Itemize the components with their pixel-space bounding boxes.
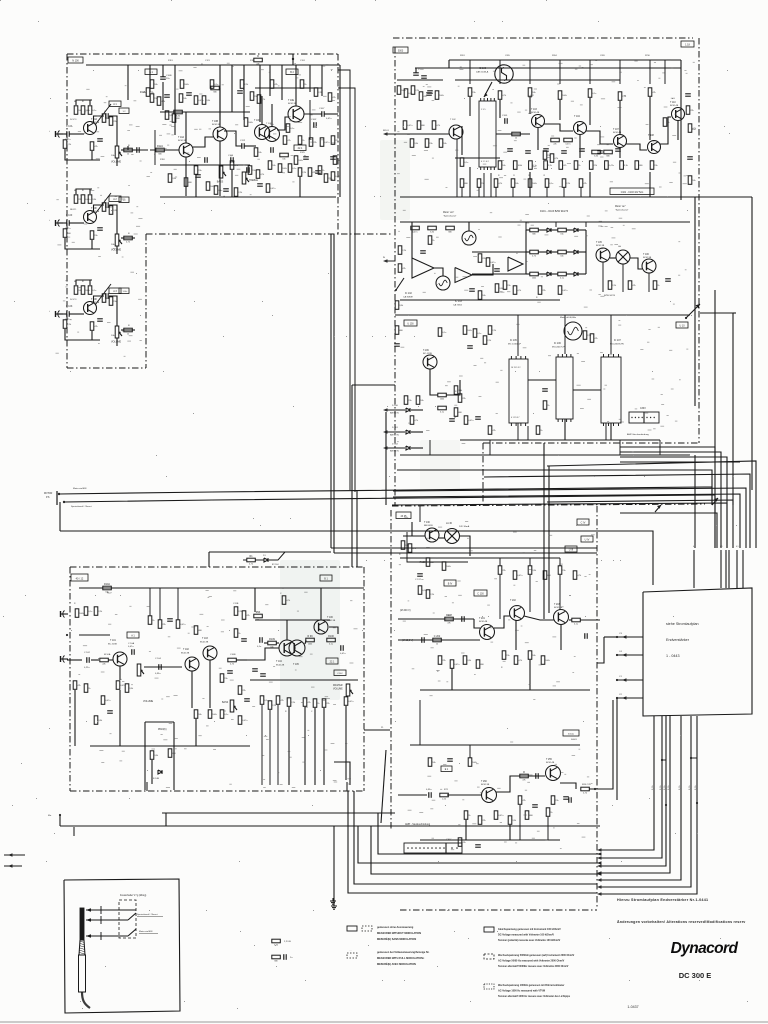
svg-text:T 10A: T 10A xyxy=(178,136,185,139)
staircase wire A xyxy=(547,461,756,548)
osc mid vert1 xyxy=(461,126,463,155)
svg-text:22k: 22k xyxy=(442,660,445,662)
cb out vert xyxy=(419,700,421,745)
endstufe fan wire 4 xyxy=(601,716,670,873)
preamp block boundary right edge xyxy=(337,54,339,234)
svg-text:C 10A: C 10A xyxy=(66,125,73,128)
bus arrowhead l2 xyxy=(597,861,602,864)
amp res under T101 xyxy=(116,681,120,690)
svg-text:C10C: C10C xyxy=(337,673,343,675)
out caps left xyxy=(428,792,430,798)
svg-text:♪: ♪ xyxy=(49,219,50,222)
tl mini caps xyxy=(204,157,206,163)
oscillator IC100 xyxy=(495,65,513,83)
svg-text:4,7k: 4,7k xyxy=(554,158,558,160)
tl right column parts xyxy=(331,136,335,145)
svg-text:10k: 10k xyxy=(482,295,485,297)
svg-text:MC 14160CP: MC 14160CP xyxy=(508,344,522,346)
svg-text:3,3k: 3,3k xyxy=(430,232,434,234)
page bottom scan line xyxy=(0,1021,768,1023)
right col comps xyxy=(688,124,692,133)
ic row rail xyxy=(460,439,660,441)
channel extra parts C xyxy=(102,294,106,303)
preamp block boundary mid edge xyxy=(146,233,393,235)
svg-text:1k: 1k xyxy=(152,620,154,622)
resistor R119 xyxy=(230,161,234,170)
svg-text:3,3k: 3,3k xyxy=(154,755,158,757)
svg-text:100k: 100k xyxy=(439,95,443,97)
svg-text:C11B: C11B xyxy=(233,603,239,605)
opamp IC102 xyxy=(412,258,434,278)
resistor ladder 10F r2 xyxy=(81,195,85,204)
svg-text:0,47u: 0,47u xyxy=(498,815,503,817)
svg-text:0,1%: 0,1% xyxy=(668,785,670,790)
nested corner c xyxy=(620,457,727,548)
legend row2 symbol xyxy=(347,953,357,958)
endstufe fan wire 6 xyxy=(601,716,691,887)
svg-text:“Speisekanal”: “Speisekanal” xyxy=(443,216,457,218)
endstufe bottom wire x670 xyxy=(669,715,671,717)
svg-text:IC 100: IC 100 xyxy=(479,67,487,70)
boxed label B1b xyxy=(320,575,332,581)
ps wires2 xyxy=(439,537,445,539)
amp pair wire xyxy=(264,642,268,644)
svg-text:10k: 10k xyxy=(692,180,695,182)
svg-text:10k: 10k xyxy=(183,98,186,100)
svg-text:22k: 22k xyxy=(542,290,545,292)
link horiz y553 xyxy=(334,552,597,554)
svg-text:0,1%: 0,1% xyxy=(679,785,681,790)
staircase wire B xyxy=(397,470,712,505)
svg-text:DAS 110B-A: DAS 110B-A xyxy=(476,71,489,74)
amp input jack1 xyxy=(63,611,65,618)
svg-text:47k: 47k xyxy=(522,780,525,782)
svg-text:100k: 100k xyxy=(298,160,302,162)
amp cap C104 xyxy=(158,664,160,670)
amp r res bottom xyxy=(287,698,291,707)
svg-text:T 10A: T 10A xyxy=(91,118,98,121)
svg-text:0,47u: 0,47u xyxy=(348,701,353,703)
ic row wires3 xyxy=(610,423,612,440)
input rc row r1 xyxy=(403,121,407,130)
svg-text:Motor ein/EIN: Motor ein/EIN xyxy=(73,487,87,490)
transistor T10A xyxy=(179,143,193,157)
driver wire2 xyxy=(494,616,510,628)
amp in wire xyxy=(67,659,82,661)
svg-text:47k: 47k xyxy=(402,268,405,270)
svg-text:C10Y: C10Y xyxy=(319,108,325,110)
svg-text:16 13 9 5 2: 16 13 9 5 2 xyxy=(511,367,520,369)
svg-text:MEASURED WITHOUT MODULATION: MEASURED WITHOUT MODULATION xyxy=(377,932,421,935)
coupling cap out 10K xyxy=(105,293,107,299)
boxed label BIV xyxy=(444,580,456,586)
svg-text:0,47u: 0,47u xyxy=(468,420,473,422)
resistor ladder 10K r2 xyxy=(81,286,85,295)
rotor wire 1 xyxy=(59,487,712,505)
svg-text:0,47u: 0,47u xyxy=(412,232,417,234)
callout diagonal 10A xyxy=(95,104,111,125)
svg-text:22k: 22k xyxy=(113,121,116,123)
bottom bus y884 xyxy=(354,791,597,884)
svg-text:4,7k: 4,7k xyxy=(518,660,522,662)
svg-text:MEASURED WITH FULL MODULATION≡: MEASURED WITH FULL MODULATION≡ xyxy=(377,957,425,960)
amp r top wires2 xyxy=(320,588,322,620)
svg-text:NF-PO: NF-PO xyxy=(70,209,77,211)
svg-text:100k: 100k xyxy=(532,183,536,185)
svg-text:Hierzu Stromlaufplan Endverst: Hierzu Stromlaufplan Endverstärker Nr.1-… xyxy=(617,898,708,902)
chain wire4 xyxy=(660,117,671,144)
out res cols2 xyxy=(551,796,555,805)
svg-text:1k: 1k xyxy=(436,644,438,646)
svg-text:2,2k: 2,2k xyxy=(487,340,491,342)
svg-text:DC-PO: DC-PO xyxy=(70,119,77,121)
out res cols xyxy=(464,811,468,820)
svg-text:15k: 15k xyxy=(555,800,558,802)
ic mid res xyxy=(583,331,587,340)
svg-text:100k: 100k xyxy=(79,613,83,615)
svg-text:100k: 100k xyxy=(184,84,188,86)
svg-text:BC414B: BC414B xyxy=(554,607,563,609)
svg-text:siehe Stromlaufplan: siehe Stromlaufplan xyxy=(666,622,699,626)
svg-text:2,2k: 2,2k xyxy=(291,702,295,704)
wire switch to bus xyxy=(733,312,736,314)
amp wire to T101b xyxy=(108,659,113,661)
amp rh rail 680 xyxy=(250,679,358,681)
lamp LA30 xyxy=(445,529,460,544)
bass pot amp xyxy=(230,700,234,712)
label box 0303 xyxy=(393,47,408,53)
ps caps xyxy=(417,573,423,575)
emitter resistor 10F xyxy=(90,231,94,240)
tr lower wires xyxy=(400,454,690,456)
svg-text:47k: 47k xyxy=(274,84,277,86)
svg-text:0,1%: 0,1% xyxy=(660,785,662,790)
bias resistor 10F xyxy=(63,229,67,238)
svg-text:0,47u: 0,47u xyxy=(335,176,340,178)
coupling capacitor C10K xyxy=(66,311,68,317)
svg-text:0,47u: 0,47u xyxy=(517,575,522,577)
resistor ladder 10F r1 xyxy=(74,195,78,204)
label box N100 xyxy=(68,57,83,63)
svg-text:“Speisekanal”: “Speisekanal” xyxy=(615,210,629,212)
left edge stub 2 xyxy=(8,864,13,867)
resistor ladder 10A r2 xyxy=(81,106,85,115)
amp r signal xyxy=(247,648,279,660)
link vert x334 xyxy=(333,234,335,553)
wire collector 10A xyxy=(94,116,105,123)
ps rail xyxy=(400,557,470,559)
driver rail xyxy=(398,618,474,620)
bus arrowhead l3 xyxy=(597,872,602,875)
left edge stub 1 xyxy=(8,853,13,856)
svg-text:BC414B: BC414B xyxy=(546,762,555,764)
res left col xyxy=(395,301,399,310)
svg-text:R12A: R12A xyxy=(157,145,163,148)
resistor column tr xyxy=(543,151,547,160)
svg-text:0,1u: 0,1u xyxy=(442,332,446,334)
feedback diode xyxy=(158,770,162,774)
svg-text:AC-Voltage 1000 Hz measured wi: AC-Voltage 1000 Hz measured with VTVM xyxy=(498,990,545,993)
svg-text:10k: 10k xyxy=(532,655,535,657)
svg-text:T 10B: T 10B xyxy=(212,121,219,123)
svg-text:T 102: T 102 xyxy=(450,119,456,121)
svg-text:4,7k: 4,7k xyxy=(436,125,440,127)
bottom vert x334 xyxy=(333,826,335,903)
amp r top wires3 xyxy=(286,620,288,640)
rail drop x128 xyxy=(127,65,129,100)
tr ic parts xyxy=(438,328,442,337)
diode stub D102 xyxy=(383,446,388,449)
resistor ladder 10K r3 xyxy=(88,286,92,295)
svg-text:2,2k: 2,2k xyxy=(238,192,242,194)
svg-text:0,1u: 0,1u xyxy=(329,644,333,646)
opamp IC104 xyxy=(508,257,523,271)
ps vert xyxy=(411,522,413,536)
rail drops osc4 xyxy=(649,172,651,197)
T109 rc a xyxy=(404,396,408,405)
svg-text:2,2k: 2,2k xyxy=(622,96,626,98)
IC105 box xyxy=(509,359,528,423)
endstufe fan wire 7 xyxy=(601,716,697,894)
svg-text:0,47u: 0,47u xyxy=(242,720,247,722)
boxed label CIV xyxy=(577,519,589,525)
cap C115 xyxy=(230,157,232,163)
svg-text:47k: 47k xyxy=(563,165,566,167)
cb out row xyxy=(428,758,432,767)
svg-text:R109: R109 xyxy=(269,638,275,641)
resistor R10G xyxy=(309,138,313,147)
amp res verts low xyxy=(194,710,198,719)
svg-text:2,2k: 2,2k xyxy=(244,84,248,86)
svg-text:T 202: T 202 xyxy=(510,600,517,602)
tr rail2 xyxy=(449,67,681,69)
svg-text:3,3k: 3,3k xyxy=(129,688,133,690)
matrix vert l xyxy=(525,230,527,274)
svg-text:Motor off 40,6Hz: Motor off 40,6Hz xyxy=(560,316,576,319)
svg-text:22k: 22k xyxy=(335,140,338,142)
label texture amp-block xyxy=(119,760,122,763)
ic res row xyxy=(463,326,467,335)
svg-text:15k: 15k xyxy=(506,655,509,657)
svg-text:BC413B: BC413B xyxy=(596,245,605,247)
svg-text:C33X: C33X xyxy=(640,408,646,410)
amp in res col2 xyxy=(73,681,77,690)
svg-text:C105: C105 xyxy=(502,115,508,117)
svg-text:100k: 100k xyxy=(282,168,286,170)
driver bottom rail xyxy=(420,689,590,691)
svg-text:15k: 15k xyxy=(252,170,255,172)
svg-text:0,1u: 0,1u xyxy=(592,93,596,95)
left stub IN107 xyxy=(383,259,388,262)
tr chain bottom res xyxy=(460,179,464,188)
bus arrowhead l1 xyxy=(597,852,602,855)
osc arrow xyxy=(484,82,492,97)
svg-text:T 130: T 130 xyxy=(424,522,431,524)
amp r out wire xyxy=(329,627,338,634)
amp bottom drops xyxy=(119,690,121,746)
endstufe stub link2 xyxy=(597,637,604,663)
cb verts xyxy=(499,558,501,566)
svg-text:4,7k: 4,7k xyxy=(230,664,234,666)
amp right cluster xyxy=(234,607,238,616)
svg-text:C 102: C 102 xyxy=(84,652,91,654)
driver cap1 xyxy=(461,616,463,622)
svg-text:100k: 100k xyxy=(308,644,312,646)
svg-text:R10A: R10A xyxy=(104,583,110,586)
label box 4305 xyxy=(396,512,411,519)
svg-text:1k: 1k xyxy=(515,138,517,140)
svg-text:3,3k: 3,3k xyxy=(512,820,516,822)
svg-text:1k: 1k xyxy=(468,815,470,817)
svg-text:Fussschalter V’r’g (Moog): Fussschalter V’r’g (Moog) xyxy=(120,894,146,897)
svg-text:MESURÉ(E) AVEC MODULATION: MESURÉ(E) AVEC MODULATION xyxy=(377,963,416,966)
osc block boundary top xyxy=(393,37,693,39)
wire out 10A xyxy=(116,159,118,167)
svg-text:47k: 47k xyxy=(312,172,315,174)
svg-text:R207: R207 xyxy=(446,614,452,617)
ic row wires xyxy=(528,379,556,381)
svg-text:0,22u: 0,22u xyxy=(84,667,90,669)
bus arrowhead 6 xyxy=(597,885,602,888)
resistor out 10K xyxy=(124,328,133,332)
tl wires fine xyxy=(185,112,187,143)
driver mid verts2 xyxy=(560,624,562,650)
svg-text:D 100: D 100 xyxy=(392,405,399,407)
svg-text:DC 300 E: DC 300 E xyxy=(679,971,712,980)
resistor R10A xyxy=(103,586,112,590)
transistor T130 xyxy=(425,528,439,542)
amp res M10A xyxy=(100,658,109,662)
amp r drops xyxy=(288,707,290,785)
svg-text:BC 413B: BC 413B xyxy=(423,353,432,355)
ic mid res2 xyxy=(458,394,462,403)
ic bot wires xyxy=(517,423,519,440)
svg-text:1-0437: 1-0437 xyxy=(627,1005,638,1009)
svg-text:Gleichspannung gemessen mit In: Gleichspannung gemessen mit Instrument 1… xyxy=(498,928,561,931)
bottom vert x358 xyxy=(358,826,601,863)
wire y513 xyxy=(620,513,717,548)
driver res cols2 xyxy=(502,651,506,660)
amp exit wire a xyxy=(334,762,350,785)
svg-text:0,1%: 0,1% xyxy=(695,785,697,790)
svg-text:0,47u: 0,47u xyxy=(120,685,125,687)
amp rh res row xyxy=(260,696,264,705)
svg-text:R: R xyxy=(523,771,525,774)
svg-text:C 202: C 202 xyxy=(434,635,441,638)
svg-text:TREBLE: TREBLE xyxy=(249,180,258,182)
svg-text:3,3k: 3,3k xyxy=(624,165,628,167)
svg-text:C10B: C10B xyxy=(166,75,172,77)
cb res row 570 xyxy=(498,566,502,575)
wire c112 out xyxy=(244,145,256,147)
tl mini res2 xyxy=(174,110,183,114)
wire C10B xyxy=(162,65,164,77)
IC106 box xyxy=(556,357,573,419)
resistor out 10A xyxy=(124,148,133,152)
svg-text:47k: 47k xyxy=(423,96,426,98)
boxed label C130 xyxy=(474,590,487,596)
svg-text:T 10C: T 10C xyxy=(254,120,261,122)
rail drop xtra4 xyxy=(309,65,311,92)
svg-text:1k: 1k xyxy=(106,118,108,120)
svg-text:0,1u: 0,1u xyxy=(292,168,296,170)
label texture top-left xyxy=(269,71,271,74)
svg-text:22.1: 22.1 xyxy=(330,660,335,663)
svg-text:22k: 22k xyxy=(326,703,329,705)
svg-text:C 137: C 137 xyxy=(415,579,422,581)
plug tip xyxy=(80,908,84,940)
wire collector 10F xyxy=(94,205,105,212)
svg-text:IC 103: IC 103 xyxy=(455,301,462,303)
svg-text:R93: R93 xyxy=(256,611,261,614)
svg-text:22k: 22k xyxy=(102,664,105,666)
tick mark amp bottom 2 xyxy=(346,782,348,791)
wire c112 xyxy=(224,131,242,146)
svg-text:DC-PO: DC-PO xyxy=(70,299,77,301)
svg-text:22k: 22k xyxy=(313,142,316,144)
svg-text:T 106: T 106 xyxy=(327,617,334,619)
svg-text:C IV: C IV xyxy=(581,521,586,524)
resistor ladder 10F r3 xyxy=(88,195,92,204)
osc mid vert2 xyxy=(537,128,539,150)
transistor T106 xyxy=(642,259,656,273)
label texture center-block xyxy=(436,669,440,672)
svg-text:T 103: T 103 xyxy=(202,638,209,640)
svg-text:0,47u: 0,47u xyxy=(326,118,332,120)
svg-text:0,1u: 0,1u xyxy=(92,290,96,292)
svg-text:T 255: T 255 xyxy=(546,759,553,761)
svg-text:T 106: T 106 xyxy=(643,254,650,256)
svg-text:3,3k: 3,3k xyxy=(594,156,598,158)
channel extra parts A xyxy=(102,114,106,123)
driver wire1 xyxy=(474,619,480,628)
svg-text:0,47u: 0,47u xyxy=(180,624,185,626)
svg-text:MASTER: MASTER xyxy=(333,684,343,687)
svg-text:BC 413B: BC 413B xyxy=(108,644,117,646)
svg-text:0,1: 0,1 xyxy=(693,546,696,548)
rotor terminal xyxy=(58,493,60,495)
svg-text:47k: 47k xyxy=(447,623,450,625)
osc block boundary left xyxy=(394,47,396,506)
svg-text:Tension alternatif 1000 Hz mes: Tension alternatif 1000 Hz mesure avec V… xyxy=(498,995,571,998)
boxed label C101-C103 xyxy=(610,188,654,195)
tl lower parts2 xyxy=(270,147,272,153)
transistor T10A xyxy=(84,122,97,135)
svg-text:Speisekanal / Ohrent: Speisekanal / Ohrent xyxy=(137,913,158,916)
svg-text:100k: 100k xyxy=(562,95,566,97)
link horiz y548 xyxy=(331,547,597,549)
mid res row1 xyxy=(551,138,560,142)
wire out 10K xyxy=(116,339,118,347)
svg-text:0,1u: 0,1u xyxy=(218,190,222,192)
amp in res col xyxy=(75,609,79,618)
amp node xyxy=(66,634,68,636)
amp block parts3 xyxy=(101,696,105,705)
endstufe bottom wire x691 xyxy=(690,715,692,717)
svg-text:15k: 15k xyxy=(562,570,565,572)
resistor column a xyxy=(165,111,169,120)
svg-text:100k: 100k xyxy=(446,566,450,568)
out boxed xyxy=(441,766,452,772)
osc block step edge xyxy=(482,443,484,506)
bias resistor 10K xyxy=(63,320,67,329)
motor long rail xyxy=(395,314,690,316)
vert bus x752 xyxy=(751,197,753,490)
ground bottom xyxy=(333,903,335,906)
transistor T10F xyxy=(84,211,97,224)
transistor T103a xyxy=(203,646,217,660)
svg-text:R26 C29: R26 C29 xyxy=(582,784,591,786)
